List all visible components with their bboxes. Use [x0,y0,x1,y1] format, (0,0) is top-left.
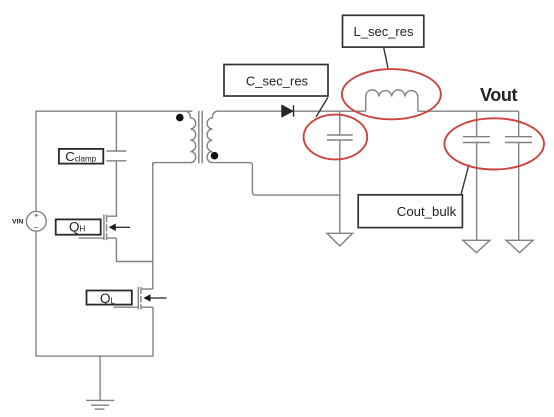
leader line Cout_bulk [461,165,469,195]
wire C_sec_res bottom lead to ground [339,140,341,233]
transistor arrow Q_L [145,295,167,301]
label box Cout_bulk [358,195,462,228]
label box C_sec_res [224,65,328,97]
wire left rail upper [35,111,37,212]
wire Q_H source to switch node [116,238,152,261]
ground (triangle under Cout cap2) [506,240,533,252]
svg-text:VIN: VIN [12,219,23,226]
capacitor C_sec_res [327,135,353,140]
transistor Q_H (MOSFET) [79,215,117,241]
voltage source VIN [26,211,46,231]
transformer dot primary [176,114,184,122]
transistor arrow Q_H [110,225,130,231]
highlight ellipse C_sec_res [304,115,368,160]
VIN plus sign [34,213,38,227]
diode D1 [282,105,294,116]
wire secondary top lead to diode [217,110,283,112]
ground (triangle under Cout cap1) [463,240,490,252]
wire C_sec_res top lead [339,111,341,135]
wire inductor to output [418,110,519,112]
capacitor Cout_bulk 1 [463,137,490,143]
wire top rail primary side [36,110,193,112]
capacitor C_clamp [106,151,126,161]
wire bottom rail [35,355,153,357]
transformer T1 primary winding [185,111,196,162]
wire Cout cap1 bottom lead [476,143,478,241]
wire primary bottom vertical (switch node) [152,162,154,289]
label box L_sec_res [343,15,424,47]
wire Q_L source to bottom rail [152,307,154,356]
wire Cout cap2 top lead [518,111,520,137]
wire Cout cap2 bottom lead [518,143,520,241]
highlight ellipse L_sec_res [342,69,441,119]
wire C_clamp bottom lead to Q_H drain [107,161,117,216]
wire secondary bottom step [217,163,340,196]
svg-text:Vout: Vout [480,85,517,105]
wire ground lead [99,356,101,400]
transformer T1 secondary winding [207,111,218,162]
leader line L_sec_res [384,47,388,68]
wire primary bottom lead [153,163,186,166]
svg-text:C_sec_res: C_sec_res [246,73,309,88]
svg-text:Cout_bulk: Cout_bulk [397,204,457,219]
transistor Q_L (MOSFET) [114,287,154,310]
transformer dot secondary [211,152,219,160]
ground (triangle under C_sec_res) [327,233,353,246]
svg-text:L_sec_res: L_sec_res [354,24,414,39]
transformer core [199,111,202,164]
leader line C_sec_res [316,97,328,117]
capacitor Cout_bulk 2 [505,137,532,143]
VIN minus sign [34,226,38,228]
wire diode cathode to inductor [293,110,365,112]
highlight ellipse Cout_bulk [444,118,544,169]
wire C_clamp top lead [115,111,117,151]
label box Q_H [56,219,101,234]
label box Q_L [87,291,132,306]
wire left rail lower [35,231,37,356]
wire Cout cap1 top lead [476,111,478,137]
label box C_clamp [59,149,103,164]
inductor L_sec_res [366,90,418,111]
ground (earth, bottom left) [86,400,114,409]
